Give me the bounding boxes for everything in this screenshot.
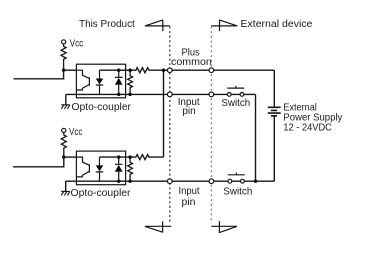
junction dot lower Vcc node bbox=[62, 155, 65, 158]
ground upper bbox=[61, 105, 70, 109]
wire: plus common drop to lower unit bbox=[163, 70, 165, 157]
svg-text:Vcc: Vcc bbox=[69, 127, 82, 138]
wire: upper input pin to common bus drop bbox=[255, 94, 257, 181]
transistor (photo) upper bbox=[76, 70, 89, 90]
resistor lower pull-up (Vcc) bbox=[61, 133, 66, 158]
battery BT1 bbox=[268, 107, 281, 116]
switch SW2 lower bbox=[228, 179, 232, 183]
svg-text:pin: pin bbox=[182, 197, 196, 208]
svg-text:Switch: Switch bbox=[221, 98, 250, 109]
svg-text:This Product: This Product bbox=[79, 19, 135, 30]
wire: upper left input lead bbox=[14, 70, 64, 79]
junction dot lower D4 bottom bbox=[117, 180, 120, 183]
wire: upper ground stub bbox=[65, 94, 67, 104]
opto-coupler U1 box bbox=[76, 64, 125, 98]
wire: battery minus riser bbox=[273, 116, 275, 181]
svg-text:Input: Input bbox=[179, 186, 200, 197]
svg-text:External device: External device bbox=[241, 19, 313, 30]
wire: lower ground stub bbox=[65, 181, 67, 191]
junction dot lower D4 top bbox=[117, 155, 120, 158]
svg-text:Vcc: Vcc bbox=[70, 38, 83, 49]
junction dot upper D2 bottom bbox=[117, 93, 120, 96]
wire: upper inner top rail to plus common bbox=[100, 68, 275, 73]
diode upper D1 (down) bbox=[96, 70, 103, 94]
Vcc terminal lower bbox=[62, 128, 66, 132]
svg-text:Opto-coupler: Opto-coupler bbox=[71, 188, 132, 199]
wire: upper junction to opto box bbox=[64, 69, 77, 71]
diode lower D4 (up) bbox=[115, 157, 123, 181]
boundary dashed line left bbox=[169, 26, 171, 222]
junction dot lower load resistor top bbox=[128, 155, 131, 158]
boundary arrow top-right bbox=[211, 20, 237, 31]
boundary arrow bottom-left bbox=[145, 221, 172, 232]
wire: upper bottom rail (input pin net) bbox=[66, 93, 256, 95]
wire: plus common to battery + bbox=[273, 70, 275, 107]
diode lower D3 (down) bbox=[96, 157, 103, 181]
wire: lower inner top rail to plus common drop bbox=[100, 155, 164, 160]
node: upper input pin terminal left bbox=[167, 92, 172, 97]
wire: lower bottom rail (input pin net) bbox=[66, 180, 275, 182]
Vcc terminal upper bbox=[62, 40, 66, 44]
transistor (photo) lower bbox=[76, 157, 89, 177]
node: lower input pin terminal right bbox=[209, 179, 214, 184]
diode upper D2 (up) bbox=[115, 70, 123, 94]
svg-text:pin: pin bbox=[182, 106, 196, 117]
boundary arrow bottom-right bbox=[211, 221, 237, 233]
junction dot plus common tee bbox=[162, 69, 165, 72]
node: plus common terminal left bbox=[167, 68, 172, 73]
node: plus common terminal right bbox=[209, 68, 214, 73]
boundary dashed line right bbox=[210, 26, 212, 223]
resistor upper load (right of box) bbox=[128, 70, 133, 94]
resistor upper pull-up (Vcc) bbox=[61, 44, 66, 70]
svg-text:Opto-coupler: Opto-coupler bbox=[72, 102, 132, 113]
svg-text:common: common bbox=[171, 57, 212, 68]
resistor lower load (right of box) bbox=[128, 157, 133, 181]
wire: lower junction to opto box bbox=[64, 156, 77, 158]
junction dot upper load resistor top bbox=[128, 69, 131, 72]
svg-text:Switch: Switch bbox=[223, 187, 252, 198]
wire: lower left input lead bbox=[13, 157, 64, 167]
junction dot common bus at lower rail bbox=[254, 180, 257, 183]
svg-text:12 - 24VDC: 12 - 24VDC bbox=[283, 122, 332, 133]
junction dot upper load resistor bottom bbox=[128, 93, 131, 96]
switch SW1 upper bbox=[227, 93, 231, 97]
opto-coupler U2 box bbox=[76, 151, 125, 185]
boundary arrow top-left bbox=[145, 20, 170, 31]
node: upper input pin terminal right bbox=[209, 92, 214, 97]
ground lower bbox=[61, 191, 70, 195]
node: lower input pin terminal left bbox=[167, 179, 172, 184]
junction dot upper D2 top bbox=[117, 69, 120, 72]
junction dot upper Vcc node bbox=[62, 69, 65, 72]
junction dot lower load resistor bottom bbox=[128, 180, 131, 183]
